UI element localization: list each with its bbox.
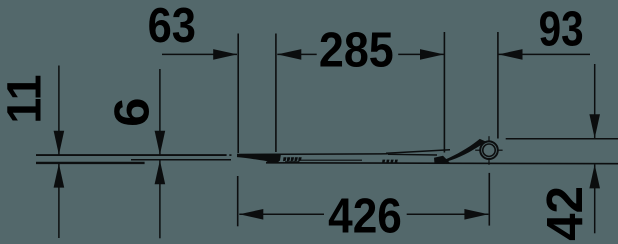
arrowhead 42 up-pointing xyxy=(589,164,600,188)
blade upper rising edge to hinge xyxy=(386,150,450,154)
blade solid wedge xyxy=(237,154,266,161)
arrowhead 42 down-pointing xyxy=(589,114,600,138)
arrowhead 11 up-pointing xyxy=(54,164,65,188)
svg-text:93: 93 xyxy=(539,1,584,57)
dim 11 lower tail xyxy=(58,164,60,238)
extension line A lower segment (426 left) xyxy=(237,176,239,226)
extension line E (426 right, x=489) xyxy=(488,173,490,226)
svg-text:285: 285 xyxy=(319,23,394,77)
arrowhead shared 63/285 left-pointing (tip at line B) xyxy=(277,49,301,60)
hinge centerline tick right xyxy=(498,149,502,151)
serration cluster 1 xyxy=(283,157,302,162)
arrowhead 11 down-pointing xyxy=(54,131,65,155)
dim 6 upper tail xyxy=(159,69,161,155)
arrowhead 426 left-pointing xyxy=(239,209,263,220)
hinge circle outer xyxy=(480,141,498,159)
arrowhead shared 285/93 right-pointing (tip at line C) xyxy=(420,49,444,60)
dim 426 dim line right part xyxy=(407,213,489,215)
svg-text:42: 42 xyxy=(536,186,593,241)
hinge centerline tick left xyxy=(475,149,480,151)
extension line A (x=238, left end of 63 and 426) xyxy=(237,34,239,154)
extension line B (x=276, 63/285 boundary) xyxy=(275,34,277,153)
blade top line xyxy=(237,153,388,156)
seat back bottom line B2 xyxy=(36,162,145,164)
hinge circle inner xyxy=(483,144,495,156)
seat top line T xyxy=(36,154,227,156)
dim 6 lower tail xyxy=(159,160,161,238)
dim 426 dim line left part xyxy=(239,213,324,215)
dim 42 lower tail xyxy=(594,164,596,233)
dim 285 dim line right part xyxy=(398,53,444,55)
damper arm swoosh xyxy=(435,139,486,164)
svg-text:11: 11 xyxy=(0,74,52,123)
arrowhead 6 down-pointing xyxy=(155,131,166,155)
hinge centerline tick bottom xyxy=(488,159,490,165)
extension line D (x=498, right end of 93) xyxy=(497,32,499,139)
seat top line tick xyxy=(229,154,231,156)
blade bumper xyxy=(266,154,281,163)
dim 42 upper tail xyxy=(594,64,596,138)
hinge cover top line R1 xyxy=(506,138,618,140)
dim 93 tail line xyxy=(499,53,591,55)
extension line C (x=444, 285/93 boundary) xyxy=(443,32,445,153)
dim 11 upper tail xyxy=(58,66,60,155)
seat bottom long line xyxy=(266,162,618,165)
serration cluster 2 xyxy=(382,160,398,164)
blade lower edge line into arm foot xyxy=(388,153,437,156)
damper arm foot xyxy=(434,156,451,164)
arrowhead 93 left-pointing (tip at line D) xyxy=(499,49,523,60)
svg-text:6: 6 xyxy=(104,97,159,127)
arrowhead 63 right-pointing (tip at line A) xyxy=(213,49,237,60)
hinge centerline tick top xyxy=(488,136,490,141)
dim 285 dim line left part xyxy=(277,53,316,55)
profile drawing of seat xyxy=(36,136,618,165)
svg-text:426: 426 xyxy=(328,188,402,243)
blade mid thin line xyxy=(301,159,362,161)
arrowhead 426 right-pointing xyxy=(464,209,488,220)
seat mid line M xyxy=(131,159,231,161)
svg-text:63: 63 xyxy=(148,0,196,52)
arrowhead 6 up-pointing xyxy=(155,160,166,184)
dim 63 tail line xyxy=(162,53,237,55)
